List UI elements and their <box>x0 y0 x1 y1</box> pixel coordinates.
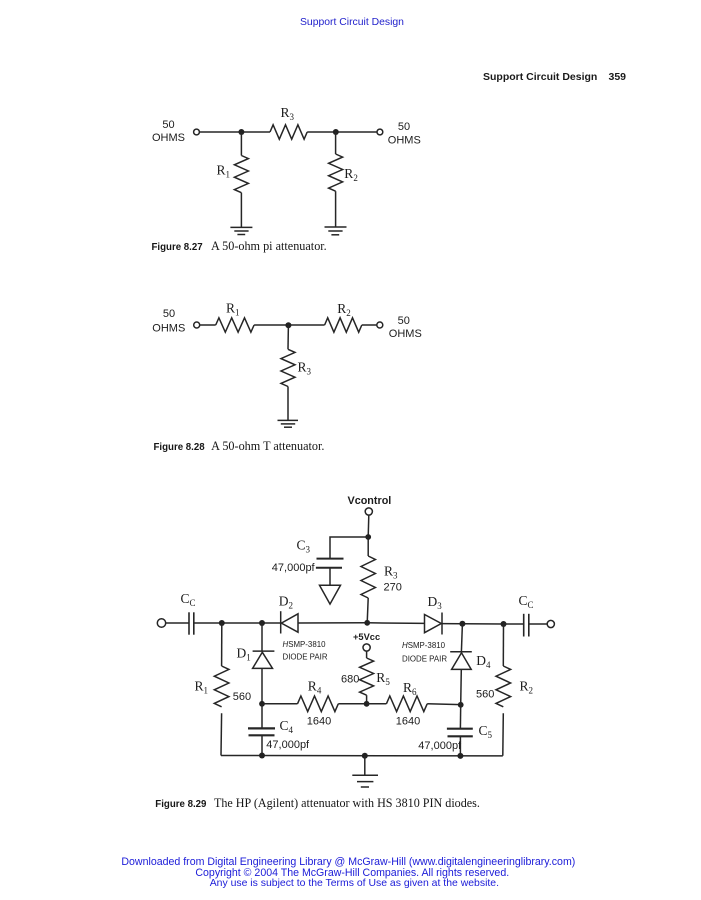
wire node M1 down to C4 <box>261 704 263 728</box>
terminal Vcontrol <box>365 508 372 515</box>
node T junction <box>285 322 291 328</box>
wire C5 to bottom rail <box>459 736 461 756</box>
label R1 <box>226 300 240 317</box>
wire node M3 down to C5 <box>459 705 461 728</box>
diode D4 (points up) <box>450 652 472 670</box>
input terminal left (50 ohms) <box>194 322 200 328</box>
wire node V to C3 branch <box>330 537 368 558</box>
wire R1 to node T <box>254 324 325 326</box>
wire rail to ground <box>364 756 366 776</box>
caption figure 8.27 <box>152 237 327 255</box>
label 50 OHMS left <box>152 119 185 144</box>
svg-text:R4: R4 <box>308 679 322 696</box>
svg-text:47,000pf: 47,000pf <box>418 740 462 752</box>
resistor R3 (series) <box>270 125 307 139</box>
svg-text:50: 50 <box>163 308 175 320</box>
svg-text:1640: 1640 <box>396 715 420 727</box>
caption figure 8.29 <box>155 794 480 812</box>
label D2 <box>279 593 293 610</box>
wire R2 to output <box>362 324 377 326</box>
node L1 junction (R1 tap) <box>219 620 225 626</box>
wire input to node A <box>199 131 270 133</box>
label 50 OHMS right <box>389 315 422 340</box>
wire R3 to node C <box>367 598 368 623</box>
label C3 <box>297 538 311 555</box>
svg-text:270: 270 <box>384 582 402 594</box>
resistor R2 (series) <box>325 318 362 332</box>
wire node R1 down to D4 <box>461 624 462 652</box>
wire D3 right / node C to D3 <box>367 622 424 625</box>
label R4 <box>308 679 322 696</box>
label C5 <box>479 723 493 740</box>
value 47,000pf (C4) <box>266 739 310 751</box>
wire D1 to node M1 <box>261 668 263 703</box>
svg-text:OHMS: OHMS <box>152 323 185 335</box>
svg-text:+5Vcc: +5Vcc <box>353 632 380 642</box>
node G2 junction (ground on rail) <box>362 753 368 759</box>
resistor R6 <box>386 696 427 712</box>
label R1 <box>195 678 209 695</box>
label 50 OHMS left <box>152 308 185 334</box>
capacitor Cc left <box>189 612 194 634</box>
terminal +5Vcc <box>363 644 370 651</box>
svg-text:R3: R3 <box>384 563 398 580</box>
svg-text:47,000pf: 47,000pf <box>266 739 310 751</box>
svg-text:R2: R2 <box>337 301 351 318</box>
ground (R1) <box>230 227 252 234</box>
diode D3 (points right) <box>425 613 443 635</box>
value 680 (R5) <box>341 673 359 685</box>
wire node T down <box>287 325 289 349</box>
svg-text:560: 560 <box>233 691 251 703</box>
wire R6 to node M3 <box>427 703 461 706</box>
output terminal right (50 ohms) <box>377 129 383 135</box>
label R1 <box>217 163 231 180</box>
svg-text:CC: CC <box>519 593 534 610</box>
svg-text:R1: R1 <box>226 300 240 317</box>
label R3 <box>281 105 295 122</box>
svg-text:C5: C5 <box>479 723 493 740</box>
svg-text:50: 50 <box>398 315 410 327</box>
wire node R2 down to R2 <box>502 624 504 666</box>
node M3 junction <box>458 702 464 708</box>
node L2 junction (D1 tap) <box>259 620 265 626</box>
value 270 (R3) <box>384 582 402 594</box>
svg-text:R5: R5 <box>376 670 390 687</box>
value 560 (R1) <box>233 691 251 703</box>
node C junction (R3 bottom) <box>364 620 370 626</box>
svg-text:560: 560 <box>476 688 494 700</box>
wire C4 to bottom rail <box>261 735 263 755</box>
svg-text:D1: D1 <box>237 646 251 663</box>
label C4 <box>280 718 294 735</box>
capacitor C3 <box>316 559 344 568</box>
footer line 3 <box>210 878 499 889</box>
ground (R3) <box>278 420 299 427</box>
svg-text:OHMS: OHMS <box>152 132 185 144</box>
resistor R5 <box>360 651 374 704</box>
svg-text:R2: R2 <box>520 679 534 696</box>
footer line 2 <box>195 867 509 879</box>
node R2 junction (R2 tap) <box>501 621 507 627</box>
svg-text:1640: 1640 <box>307 715 331 727</box>
svg-text:C3: C3 <box>297 538 311 555</box>
svg-text:Vcontrol: Vcontrol <box>348 495 392 507</box>
svg-text:D3: D3 <box>428 594 443 611</box>
resistor R2 <box>496 666 511 707</box>
wire R1 to ground <box>240 193 242 228</box>
wire input to R1 <box>200 324 216 326</box>
value 1640 (R4) <box>307 715 331 727</box>
svg-text:47,000pf: 47,000pf <box>272 562 316 574</box>
diode D1 (points up) <box>253 651 275 668</box>
wire node L2 down to D1 <box>261 623 263 651</box>
wire R2 to bottom rail <box>502 713 505 756</box>
label R3 <box>298 359 312 376</box>
capacitor Cc right <box>524 614 529 637</box>
label R2 <box>337 301 351 318</box>
label Cc left <box>181 591 196 608</box>
wire Cc right to output <box>529 623 547 625</box>
label Cc right <box>519 593 534 610</box>
output terminal right (50 ohms) <box>377 322 383 328</box>
node M1 junction <box>259 701 265 707</box>
svg-text:50: 50 <box>398 121 410 133</box>
ground (main) <box>352 775 378 787</box>
wire node M1 to R4 <box>262 703 298 705</box>
resistor R1 (series) <box>216 318 254 332</box>
svg-text:OHMS: OHMS <box>388 135 421 147</box>
resistor R4 <box>298 696 339 712</box>
caption figure 8.28 <box>154 437 325 455</box>
running head (blue) <box>300 17 404 28</box>
label R2 <box>520 679 534 696</box>
capacitor C5 <box>447 729 473 737</box>
node M2 junction <box>364 701 370 707</box>
resistor R3 (shunt) <box>281 349 295 386</box>
ground (R2) <box>325 227 347 235</box>
svg-text:50: 50 <box>162 119 174 131</box>
diode D2 (points left) <box>281 611 298 633</box>
node G1 junction (C4 on rail) <box>259 753 265 759</box>
capacitor C4 <box>248 728 275 735</box>
resistor R1 <box>214 666 229 707</box>
wire R2 to ground <box>335 191 337 227</box>
wire node A down <box>240 132 242 156</box>
resistor R2 (shunt) <box>329 154 343 191</box>
svg-text:R1: R1 <box>195 678 209 695</box>
label HSMP-3810 DIODE PAIR right <box>402 641 447 664</box>
value 47,000pf (C3) <box>272 562 316 574</box>
wire node R2 to Cc right <box>504 623 524 625</box>
wire D3 to node R1 <box>442 623 504 625</box>
label R2 <box>344 166 358 183</box>
svg-text:OHMS: OHMS <box>389 328 422 340</box>
value 47,000pf (C5) <box>418 740 462 752</box>
wire Vcontrol to node V <box>367 515 370 537</box>
svg-text:C4: C4 <box>280 718 294 735</box>
bottom rail wire <box>221 755 503 757</box>
wire Cc to node L1 <box>194 622 281 624</box>
output terminal right <box>547 620 554 627</box>
wire R4 to node M2 <box>338 703 366 705</box>
svg-text:R6: R6 <box>403 680 417 697</box>
open triangle ground (C3) <box>320 585 341 604</box>
svg-text:R1: R1 <box>217 163 231 180</box>
resistor R3 <box>361 537 375 598</box>
wire R3 to ground <box>287 387 289 421</box>
label D1 <box>237 646 251 663</box>
value 1640 (R6) <box>396 715 420 727</box>
wire R1 to bottom rail <box>220 713 223 755</box>
input terminal left <box>157 619 165 627</box>
page header right bold <box>483 71 597 83</box>
label R6 <box>403 680 417 697</box>
label HSMP-3810 DIODE PAIR left <box>283 640 328 662</box>
wire node L1 down to R1 <box>221 623 223 666</box>
svg-text:R2: R2 <box>344 166 358 183</box>
svg-text:DIODE PAIR: DIODE PAIR <box>283 653 328 662</box>
node G3 junction (C5 on rail) <box>457 753 463 759</box>
label 50 OHMS right <box>388 121 421 147</box>
wire D4 to node M3 <box>460 669 463 704</box>
label D3 <box>428 594 443 611</box>
node V junction <box>365 534 371 540</box>
wire input to Cc <box>166 622 189 624</box>
svg-text:D2: D2 <box>279 593 293 610</box>
node R1 junction (D4 tap) <box>459 621 465 627</box>
label D4 <box>476 653 491 670</box>
svg-text:R3: R3 <box>281 105 295 122</box>
svg-text:CC: CC <box>181 591 196 608</box>
footer line 1 <box>121 856 575 868</box>
node A junction <box>238 129 244 135</box>
wire D2 to node C <box>298 622 367 624</box>
wire node M2 to R6 <box>367 703 387 705</box>
wire node B down <box>335 132 337 154</box>
svg-text:HSMP-3810: HSMP-3810 <box>283 640 327 649</box>
label R5 <box>376 670 390 687</box>
svg-text:D4: D4 <box>476 653 491 670</box>
svg-text:DIODE PAIR: DIODE PAIR <box>402 655 447 664</box>
svg-text:680: 680 <box>341 673 359 685</box>
resistor R1 (shunt) <box>234 156 248 193</box>
label Vcontrol <box>348 495 392 507</box>
label R3 <box>384 563 398 580</box>
value 560 (R2) <box>476 688 494 700</box>
wire R3 to node B <box>307 131 377 133</box>
label +5Vcc <box>353 632 380 642</box>
svg-text:R3: R3 <box>298 359 312 376</box>
svg-text:HSMP-3810: HSMP-3810 <box>402 641 446 650</box>
wire C3 to arrow ground <box>329 568 331 585</box>
input terminal left (50 ohms) <box>194 129 200 135</box>
node B junction <box>333 129 339 135</box>
